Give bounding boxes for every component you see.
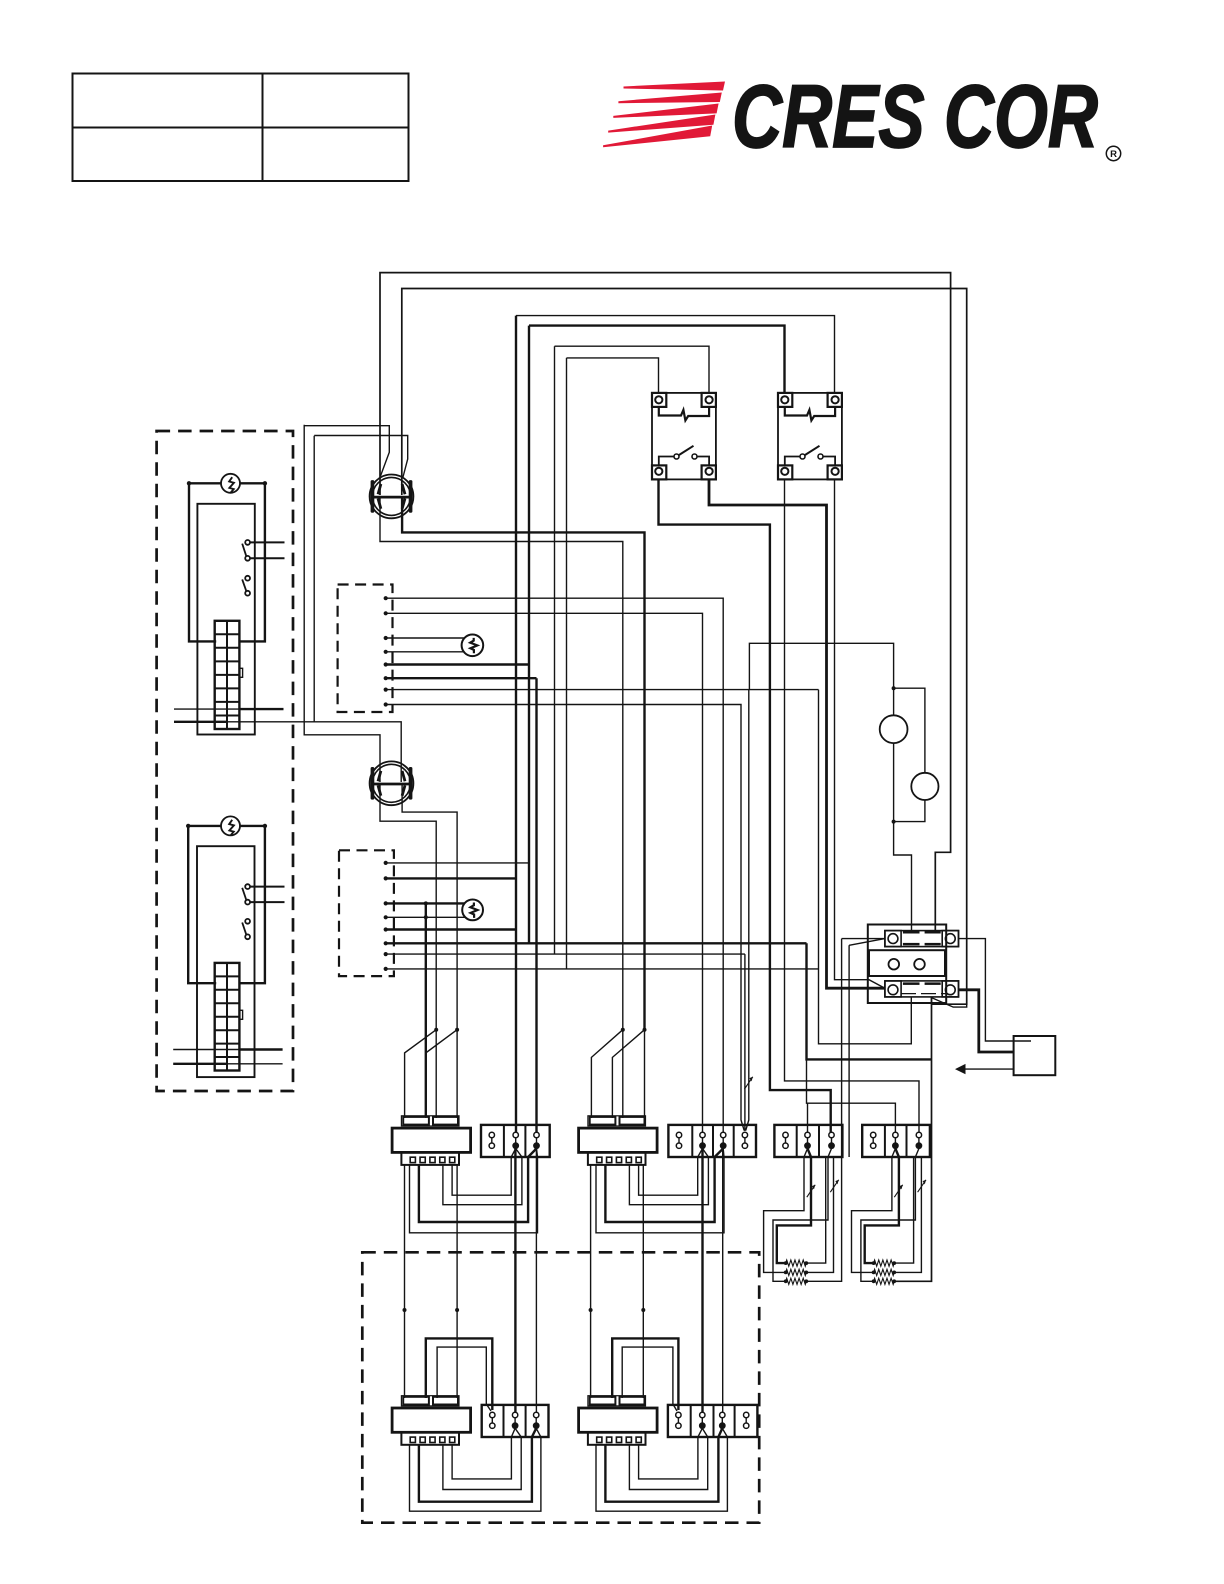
wire contactor bottom-right to box [959, 990, 1014, 1052]
wires T2 to TB2 loops [596, 1149, 724, 1233]
wire TS2 right to contactor [835, 479, 885, 988]
wire motor trunk left vertical [304, 425, 380, 782]
wire TB1 c2 to TB5 c2 [514, 1149, 516, 1413]
wire P1-3 to RT1 [386, 637, 465, 639]
wire P2-7 to bus [386, 953, 745, 955]
wire P2-5 to bus [386, 928, 516, 930]
wire unit A aux upper [174, 708, 284, 710]
wire P1-2 to TB2 c2 [386, 613, 703, 1133]
wire arrow lead to box [955, 1064, 1014, 1074]
control panel dashed enclosure [157, 431, 293, 1091]
wire heater bus x931 [894, 997, 931, 1282]
heater resistor R5 [872, 1269, 896, 1275]
connector block B 2x8 grid [215, 963, 243, 1071]
wire TS1 right to contactor [709, 479, 885, 988]
wire SW1A stub upper [250, 541, 285, 543]
heater resistor R3 [784, 1278, 808, 1284]
node dots at fuse F2 [186, 824, 267, 828]
heater resistor R1 [784, 1260, 808, 1266]
wire T2 to T4 left [589, 1165, 593, 1398]
wire unit B aux lower [173, 1063, 282, 1065]
blower motor M1 [370, 475, 414, 519]
switch SW2A contacts [242, 576, 250, 596]
wire fuse F2 right lead [240, 825, 265, 827]
wire fuse F1 right lead [240, 482, 265, 484]
wire sensor tap to T1 w1 [425, 903, 427, 1117]
wire R5 return [894, 1157, 921, 1272]
wire unit A supply loop right [239, 483, 265, 641]
Cres Cor logo red speed stripes [603, 82, 725, 148]
wires T3 to TB5 loops [410, 1428, 541, 1511]
wire contactor TL diagonal [849, 939, 885, 1157]
wire unit B supply loop right [239, 826, 265, 983]
wire bus x566 vertical [566, 358, 568, 969]
wire P1-7 riser to contactor [819, 690, 912, 1044]
wires T1 to TB1 loops [410, 1149, 538, 1233]
wire bus x516 vertical [515, 316, 517, 1133]
wire T3 taps to TB5 c1 [426, 1338, 493, 1411]
control board A outline [197, 504, 254, 735]
node dot pilot bottom [892, 820, 896, 824]
terminal block TB3 [774, 1125, 842, 1157]
terminal block TB6 [668, 1405, 758, 1437]
wire motor trunk branch upper [304, 426, 389, 476]
wire P2-4 to RT2 [386, 915, 465, 919]
plug connector P1 dashed box [338, 585, 393, 713]
Cres Cor logo text [732, 66, 1121, 166]
plug P2 pin dots [384, 861, 388, 971]
switch SW1A contacts [242, 540, 250, 561]
wire pilot light 2 return [894, 800, 925, 822]
terminal block TB4 [862, 1125, 930, 1157]
wire P1-7 to pilot lights [386, 643, 894, 689]
wire unit B aux upper [173, 1049, 282, 1051]
transformer T1 [392, 1116, 471, 1165]
wire M1 to T2 lower [380, 498, 623, 1030]
wire L5 to relay TS1 right [555, 346, 710, 393]
wire tick marks [744, 1077, 926, 1197]
wire contactor bottom diagonal [932, 998, 967, 1007]
connector block A 2x8 grid [215, 621, 243, 729]
wire L6 to relay TS1 left [567, 358, 659, 393]
wire bus x536 vertical [535, 678, 537, 1133]
wire TB3 c2 to R2 [764, 1149, 808, 1273]
wire P1-8 to TB2 c4 [386, 705, 745, 1131]
wire bus x554 vertical [554, 346, 556, 954]
wire T1 to T3 left [403, 1165, 407, 1398]
wire SW1B stub lower [250, 901, 285, 903]
node dots at fuse F1 [187, 481, 267, 485]
pilot light PL1 [880, 715, 908, 743]
wire TB1 c3 to TB5 c3 [535, 1149, 537, 1413]
svg-text:CRES COR: CRES COR [732, 66, 1098, 166]
wire P2-6 riser to contactor [807, 943, 932, 1133]
wire T1 w2 right drop [426, 1028, 459, 1118]
wire P1-5 to bus [386, 663, 529, 665]
wire TB3 c2 to R1 [777, 1149, 811, 1264]
wire SW1A stub lower [250, 557, 285, 559]
wire L2 supply line [402, 289, 967, 1005]
plug connector P2 dashed box [339, 850, 394, 976]
wire TS1 left to TB3 c3 [659, 479, 831, 1133]
heater resistor R6 [872, 1278, 896, 1284]
wire heater bus x841 [806, 939, 841, 1282]
wire L1 supply line [380, 273, 951, 932]
wire P1-4 to RT1 [386, 651, 465, 653]
heater compartment dashed enclosure [362, 1252, 759, 1522]
wire T2 w2 left drop [591, 1028, 624, 1118]
switch SW1B contacts [242, 884, 250, 904]
wire TB4 c3 to R6 [861, 1149, 919, 1282]
wire P2-2 to bus [386, 877, 516, 879]
wire L3 to relay TS2 right [516, 316, 835, 393]
temp sensor RT1 [462, 635, 484, 657]
control board B outline [197, 846, 255, 1077]
wire TB2 c2 to TB6 c2 [701, 1149, 703, 1413]
title block table [73, 74, 409, 182]
contactor K1 [868, 925, 959, 1004]
wire unit A supply loop left [189, 483, 216, 641]
wire R2 return [806, 1157, 833, 1272]
terminal block TB2 [668, 1125, 756, 1157]
wire fuse F1 left lead [189, 482, 221, 484]
wire P1-1 to TB2 c3 [386, 598, 724, 1133]
terminal block TB5 [482, 1405, 549, 1437]
wire TB3 c2 riser [807, 1103, 809, 1133]
wire P2-8 to bus [386, 968, 819, 970]
wire TB2 c3 to TB6 c3 [722, 1149, 724, 1413]
transformer T2 [579, 1116, 658, 1165]
svg-text:R: R [1110, 149, 1117, 160]
wire contactor TL feed left [842, 938, 885, 940]
wire TB2 c4 right lead [746, 690, 749, 1131]
wire pilot light 1 feed [893, 688, 895, 715]
wire M2 to T1 right [402, 785, 457, 1030]
switch SW2B contacts [242, 919, 250, 939]
wire T2 to T4 right [641, 1165, 645, 1398]
pilot light PL2 [911, 773, 938, 800]
wire T4 taps to TB6 c1 [612, 1338, 678, 1411]
wire T2 w2 right drop [612, 1028, 646, 1118]
wire pilot to contactor coil [894, 822, 912, 931]
wire SW1B stub upper [250, 886, 285, 888]
wire fuse F2 left lead [188, 825, 221, 827]
wire pilot light 1 to junction [893, 743, 895, 822]
fuse F2 circle [221, 816, 240, 835]
wire unit A to motor M2 [174, 722, 401, 782]
hi-limit thermostat TS2 [778, 393, 842, 480]
transformer T4 [579, 1396, 658, 1445]
terminal block TB1 [481, 1125, 550, 1157]
heater resistor R4 [872, 1260, 896, 1266]
wire TB4 c2 to R5 [852, 1149, 896, 1273]
wire M2 to T1 left [380, 785, 436, 1030]
fuse F1 circle [221, 474, 240, 493]
hi-limit thermostat TS1 [652, 393, 716, 480]
terminal box J1 [1014, 1036, 1056, 1075]
wire M1 to T2 upper [402, 498, 644, 1030]
wire T1 to T3 right [455, 1165, 459, 1398]
wire R1 return [806, 1157, 825, 1263]
wire contactor top-right to box [959, 939, 1032, 1041]
temp sensor RT2 [462, 900, 483, 921]
heater resistor R2 [784, 1269, 808, 1275]
wire motor trunk branch lower [314, 436, 408, 478]
wire P2-6 to contactor feed [386, 942, 807, 944]
wire P1-6 to bus [386, 677, 537, 679]
wire bus x529 vertical [528, 326, 530, 944]
wire TS2 left to TB4 c3 [785, 479, 920, 1133]
blower motor M2 [370, 761, 414, 805]
wire TB2 c4 mid lead [744, 954, 746, 1131]
wire L2 jog to contactor [931, 997, 933, 1004]
wire T1 w2 left drop [405, 1028, 439, 1118]
wire unit B supply loop left [188, 826, 216, 983]
wire L4 to relay TS2 left [529, 326, 785, 393]
wire R4 return [894, 1157, 913, 1263]
wires T4 to TB6 loops [596, 1428, 727, 1511]
transformer T3 [392, 1396, 471, 1445]
wire P2-1 to bus [386, 862, 529, 864]
wire TB4 c2 to R4 [865, 1149, 899, 1264]
plug P1 pin dots [384, 596, 388, 707]
wire P2-3 to RT2 [386, 901, 465, 905]
wire pilot light 2 branch [894, 688, 925, 773]
wire motor trunk right vertical [313, 436, 315, 722]
node dot pilot top [892, 686, 896, 690]
wire TB3 c3 to R3 [773, 1149, 832, 1282]
